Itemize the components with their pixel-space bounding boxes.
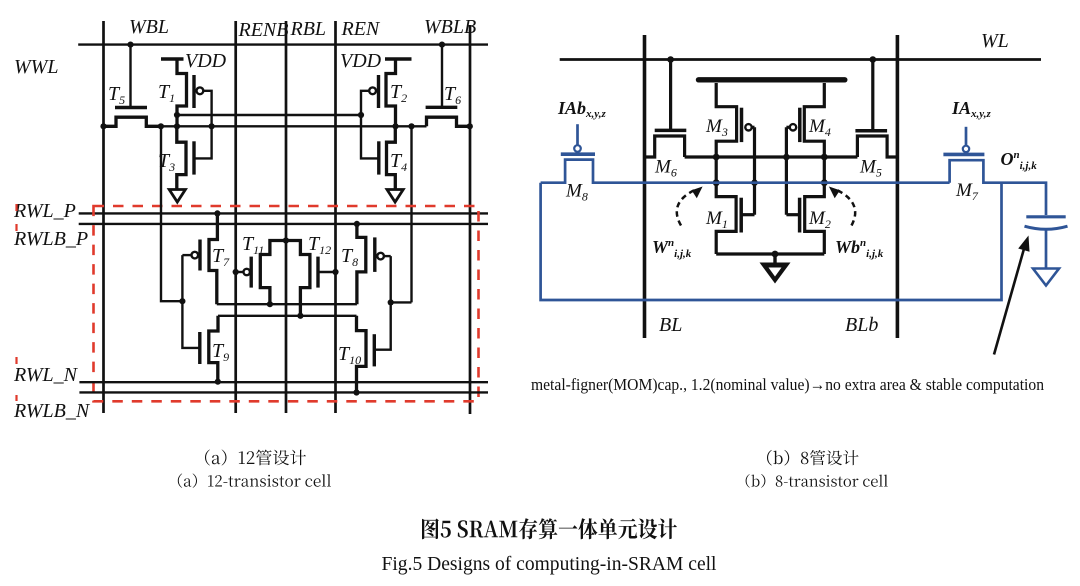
node internal-WBLB [467,123,473,129]
capacitor C stem [1045,230,1048,269]
label WL [981,30,1009,52]
label M4 [808,116,831,139]
wire T12 gate lead [318,271,336,273]
transistor M1 [716,183,741,254]
wire T8 bubble lead [384,255,391,257]
svg-text:RENB: RENB [238,19,289,41]
svg-text:Fig.5 Designs of computing-in-: Fig.5 Designs of computing-in-SRAM cell [382,554,718,575]
node RBL read tap [283,237,289,243]
wire output loop [541,183,1002,300]
node T1 drain upper [174,112,180,118]
node rail-internal [100,123,106,129]
svg-text:BLb: BLb [845,314,878,336]
wire BLb rail [896,35,900,338]
transistor M5 [855,131,897,157]
transistor T2 [369,59,395,126]
label BL [659,314,682,336]
wire M3-M1 gate net [753,127,756,214]
node T7-T9 gate junction [179,298,185,304]
label RBL [290,18,327,40]
wire T1-T3 gate net [194,91,212,159]
label IA [951,98,991,120]
wire cross-couple upper [177,114,361,116]
node WL-M6 gate [667,56,674,63]
svg-text:WL: WL [981,30,1009,52]
label M1 [705,208,728,231]
label WBL [129,16,169,38]
transistor T3 [177,126,194,189]
label T9 [212,340,229,364]
label T4 [390,150,407,174]
label T10 [338,343,361,367]
label RWLB_N [13,400,91,422]
wire storage node line [685,155,858,158]
label WWL [14,56,58,78]
node T5-latch tap [158,123,164,129]
node T8 gate junction [388,299,394,305]
node T12 source on Q [297,313,303,319]
wire T7 bubble lead [182,254,191,256]
label VDD right [340,50,382,72]
label T2 [390,81,407,105]
label M7 [955,180,979,203]
transistor M6 [645,130,687,157]
transistor M7 gate stub [965,127,968,146]
wire inverter B drop [823,157,826,183]
wire T5 gate stub [129,45,131,108]
arrow to capacitor [994,236,1030,355]
capacitor C top plate [1026,215,1065,218]
wire WL [560,58,1041,61]
svg-text:RWL_N: RWL_N [13,364,79,386]
label RWL_P [13,200,76,222]
svg-text:REN: REN [341,18,381,40]
ground symbol [760,254,791,284]
red tick 4 [15,395,17,401]
transistor M2 [800,183,825,254]
wire WBL rail [102,21,105,413]
wire T8-T10 gate net [374,256,390,350]
label T1 [158,81,175,105]
svg-text:RWL_P: RWL_P [13,200,76,222]
ground T3 [169,190,185,203]
capacitor C curved plate [1025,226,1068,229]
wire M2 gate lead [786,213,799,216]
node ground tap [772,251,779,258]
wire RBL rail [285,21,288,413]
wire latch node Q [218,315,357,317]
node T2 drain [392,123,398,129]
transistor T9 [200,316,218,382]
wire M6 gate stub [669,60,672,131]
transistor T5 [104,108,161,127]
red tick 3 [15,357,17,364]
label RWLB_P [13,228,88,250]
wire M5 gate stub [871,60,874,131]
node T7 drain on RWL_P [214,210,220,216]
label W weight node [652,237,692,260]
transistor T4 [379,126,396,189]
label T7 [212,245,230,269]
wire T11 bubble lead [236,271,244,273]
label T8 [341,245,358,269]
label REN [341,18,381,40]
node T11 source on P [267,301,273,307]
node WL-M5 gate [870,56,877,63]
label IAb [557,98,606,120]
wire read buffer right drop [410,126,412,302]
node WWL-T5 gate [127,42,133,48]
wire WWL-T6 node [439,42,445,48]
wire gate net to right drop [391,301,412,303]
label T12 [308,233,331,257]
node T1 drain lower [174,123,180,129]
wire T6 gate stub [441,45,443,108]
red tick 1 [15,204,17,211]
ground T4 [387,190,403,203]
label T3 [158,150,175,174]
svg-text:WBLB: WBLB [424,16,476,38]
label M6 [654,157,677,180]
label WBLB [424,16,476,38]
wire RWLB_N [79,391,488,393]
caption figure 5 english [382,554,718,575]
svg-text:RBL: RBL [290,18,327,40]
label T6 [444,83,461,107]
transistor T10 [357,316,375,393]
power VDD right bar [385,57,412,60]
wire RWL_N [79,381,488,383]
wire RENB rail [234,21,237,413]
label T11 [242,233,264,257]
node inverter A on W line [713,179,720,186]
label M3 [705,116,728,139]
wire T2-T4 gate net [361,91,379,159]
label VDD left [185,50,227,72]
svg-text:BL: BL [659,314,682,336]
label Wb weight node [835,237,884,260]
node M4 gate on node line [783,154,790,161]
label M5 [859,157,882,180]
node T1 gate tap [209,123,215,129]
power VDD left bar [161,57,184,60]
label RENB [238,19,289,41]
wire BL rail [643,35,647,338]
wire compute line W [645,181,950,184]
wire RWLB_P [79,223,488,225]
transistor M7 [943,154,1001,182]
label O output [1001,149,1038,172]
transistor T1 [177,59,203,126]
transistor T6 [426,107,470,126]
wire capacitor branch [1002,183,1047,215]
red tick 2 [15,224,17,231]
label T5 [108,83,125,107]
wire REN rail [334,21,337,413]
transistor M3 [716,83,752,157]
label BLb [845,314,878,336]
svg-text:metal-figner(MOM)cap., 1.2(nom: metal-figner(MOM)cap., 1.2(nominal value… [531,375,1045,394]
svg-text:WWL: WWL [14,56,58,78]
svg-text:VDD: VDD [185,50,227,72]
wire M4 bubble lead [786,126,789,129]
wire M1 gate lead [741,213,754,216]
svg-text:WBL: WBL [129,16,169,38]
label M2 [808,208,831,231]
transistor M4 [790,83,825,157]
transistor T7 [192,213,218,304]
node T10 source on RWLB_N [353,389,359,395]
node read buffer right tap [408,123,414,129]
svg-text:RWLB_N: RWLB_N [13,400,91,422]
red dashed box [94,206,479,401]
caption b english [746,474,888,488]
caption b chinese [767,450,859,466]
node inverter B output [821,154,828,161]
svg-text:RWLB_P: RWLB_P [13,228,88,250]
transistor T8 [357,224,384,304]
node T2 gate tap [358,112,364,118]
node T12 gate on REN [332,269,338,275]
label M8 [565,181,588,204]
ground capacitor [1033,269,1059,286]
node M1 gate on W line [751,179,758,186]
wire inverter A drop [715,157,718,183]
transistor T12 [286,241,318,316]
node inverter A output [713,154,720,161]
wire RWL_P [79,212,488,214]
transistor M8 gate stub [576,124,579,145]
caption MOM [531,375,1045,394]
transistor T11 [244,241,286,305]
wire M3 bubble lead [752,126,755,129]
transistor M7 bubble [963,146,969,152]
wire M4-M2 gate net [785,127,788,214]
caption a english [178,474,331,488]
label RWL_N [13,364,79,386]
transistor M8 bubble [574,145,581,152]
node T8 drain on RWLB_P [354,221,360,227]
wire WWL [78,43,488,45]
wire WBLB rail [469,25,472,414]
dashed arrow W [677,187,703,226]
capacitor top plate bar [699,77,845,82]
node T11 gate on RENB [233,269,239,275]
node T9 source on RWL_N [215,379,221,385]
wire T1 output drop [161,126,182,301]
caption a chinese [205,450,306,466]
transistor M8 [541,154,645,183]
dashed arrow Wb [829,187,855,226]
wire cell internal line [161,125,427,127]
svg-text:VDD: VDD [340,50,382,72]
node inverter B on W line [821,179,828,186]
wire latch node P [217,303,357,305]
caption figure 5 chinese [422,518,677,539]
wire source rail [716,252,824,255]
wire T7-T9 gate net [182,255,199,348]
